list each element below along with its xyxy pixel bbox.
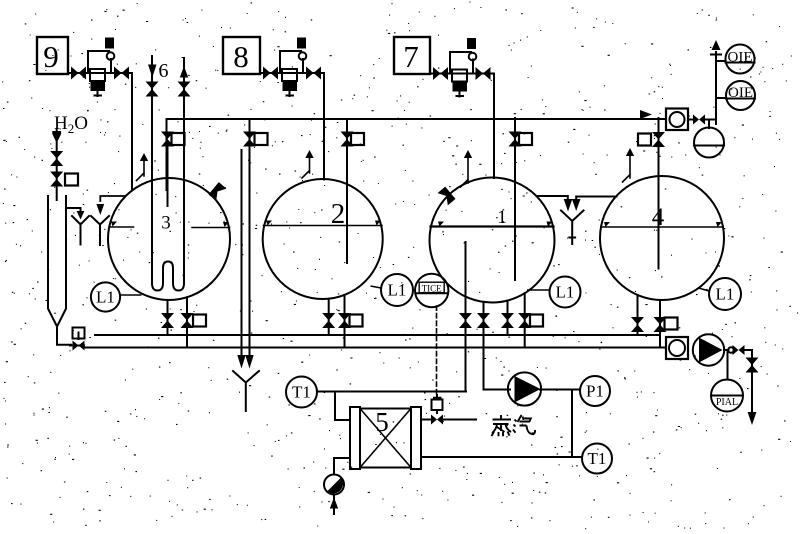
svg-text:OIE: OIE bbox=[728, 50, 753, 66]
svg-text:T1: T1 bbox=[588, 449, 607, 468]
svg-text:8: 8 bbox=[233, 39, 249, 74]
svg-text:1: 1 bbox=[497, 207, 507, 228]
svg-text:L1: L1 bbox=[96, 288, 115, 307]
svg-text:PIAL: PIAL bbox=[716, 397, 738, 408]
svg-text:6: 6 bbox=[159, 60, 169, 82]
svg-text:2: 2 bbox=[331, 198, 346, 230]
svg-text:TICE: TICE bbox=[422, 283, 442, 293]
svg-text:L1: L1 bbox=[388, 281, 407, 300]
svg-text:T1: T1 bbox=[292, 383, 311, 402]
svg-text:L1: L1 bbox=[556, 283, 575, 302]
svg-text:OIE: OIE bbox=[728, 85, 753, 101]
svg-text:3: 3 bbox=[161, 213, 171, 234]
svg-text:9: 9 bbox=[43, 39, 59, 74]
svg-text:5: 5 bbox=[375, 407, 389, 437]
svg-text:P1: P1 bbox=[586, 382, 604, 401]
svg-text:7: 7 bbox=[403, 39, 419, 74]
svg-text:4: 4 bbox=[652, 204, 665, 231]
svg-text:L1: L1 bbox=[716, 285, 735, 304]
